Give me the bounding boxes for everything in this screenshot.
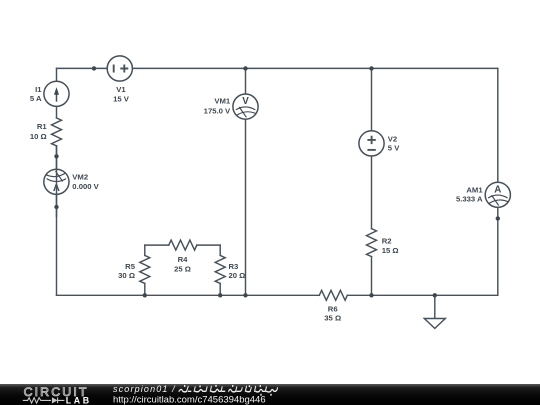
wire bottom rail left segment bbox=[57, 294, 320, 296]
svg-text:15 V: 15 V bbox=[113, 94, 130, 103]
wire R5 top lead bbox=[144, 245, 146, 255]
wire left column top bbox=[56, 68, 58, 81]
footer attribution arabic title squiggle bbox=[179, 386, 278, 392]
svg-text:V2: V2 bbox=[388, 135, 397, 144]
svg-text:V: V bbox=[242, 96, 249, 107]
resistor R1 bbox=[52, 118, 62, 146]
wire R4 to R3 top rail right bbox=[197, 244, 220, 246]
svg-text:20 Ω: 20 Ω bbox=[229, 271, 246, 280]
voltage source V2 bbox=[359, 131, 384, 156]
ammeter AM1 bbox=[485, 182, 510, 207]
resistor R3 bbox=[215, 255, 225, 283]
node top rail / V2 branch bbox=[369, 66, 373, 70]
wire VM1 branch lower bbox=[245, 119, 247, 295]
node top rail / VM1 branch bbox=[243, 66, 247, 70]
svg-text:VM1: VM1 bbox=[214, 97, 231, 106]
node R5 bottom bbox=[143, 293, 147, 297]
voltmeter VM2 bbox=[44, 146, 69, 217]
voltage source V1 bbox=[107, 56, 132, 81]
footer bar bbox=[0, 384, 540, 405]
wire top rail right segment bbox=[132, 67, 497, 69]
svg-text:http://circuitlab.com/c7456394: http://circuitlab.com/c7456394bg446 bbox=[113, 394, 266, 405]
svg-text:I1: I1 bbox=[35, 85, 42, 94]
svg-text:5 V: 5 V bbox=[388, 143, 400, 152]
svg-text:35 Ω: 35 Ω bbox=[324, 314, 341, 323]
node top rail / I1-V1 joint bbox=[92, 66, 96, 70]
current source I1 bbox=[44, 81, 69, 106]
svg-text:0.000 V: 0.000 V bbox=[72, 182, 99, 191]
svg-text:R5: R5 bbox=[125, 262, 136, 271]
resistor R6 bbox=[319, 290, 347, 300]
svg-text:R6: R6 bbox=[328, 304, 338, 313]
node junction dots bbox=[54, 66, 500, 297]
wire ground stub bbox=[434, 295, 436, 318]
resistor R5 bbox=[140, 255, 150, 283]
svg-text:30 Ω: 30 Ω bbox=[118, 271, 135, 280]
wire top rail left segment bbox=[57, 67, 108, 69]
svg-text:scorpion01 /: scorpion01 / bbox=[113, 384, 176, 394]
node ground joint bbox=[433, 293, 437, 297]
svg-text:VM2: VM2 bbox=[72, 172, 88, 181]
svg-text:V1: V1 bbox=[116, 85, 126, 94]
wire R3 bottom lead bbox=[219, 283, 221, 295]
ground bbox=[424, 319, 445, 329]
svg-text:5.333 A: 5.333 A bbox=[456, 195, 483, 204]
svg-text:25 Ω: 25 Ω bbox=[174, 265, 191, 274]
wire V2 branch upper bbox=[371, 68, 373, 130]
node VM1 branch bottom bbox=[243, 293, 247, 297]
resistor R2 bbox=[367, 229, 377, 257]
svg-text:175.0 V: 175.0 V bbox=[204, 106, 231, 115]
resistor R4 bbox=[169, 240, 197, 250]
svg-text:R3: R3 bbox=[229, 262, 239, 271]
svg-text:AM1: AM1 bbox=[466, 185, 483, 194]
svg-text:10 Ω: 10 Ω bbox=[30, 132, 47, 141]
wire bottom rail right segment bbox=[347, 294, 498, 296]
node AM1 lower joint bbox=[496, 216, 500, 220]
logo resistor-diode motif bbox=[23, 398, 65, 404]
node R2 bottom bbox=[369, 293, 373, 297]
node VM2 lower bbox=[54, 205, 58, 209]
wire R1 down through VM2 to bottom rail bbox=[56, 146, 58, 295]
svg-text:A: A bbox=[494, 184, 501, 195]
wire VM1 branch upper bbox=[245, 68, 247, 94]
wire right column upper bbox=[497, 68, 499, 182]
svg-text:R4: R4 bbox=[178, 255, 189, 264]
svg-text:R1: R1 bbox=[37, 122, 48, 131]
svg-text:LAB: LAB bbox=[66, 395, 92, 405]
svg-text:5 A: 5 A bbox=[30, 94, 42, 103]
node R3 bottom bbox=[218, 293, 222, 297]
wire R3 top lead bbox=[219, 245, 221, 255]
wire R2 to bottom rail bbox=[371, 257, 373, 296]
wire I1 to R1 bbox=[56, 106, 58, 118]
node R1 / VM2 bbox=[54, 154, 58, 158]
voltmeter VM1 bbox=[233, 94, 258, 119]
wire V2 to R2 bbox=[371, 156, 373, 229]
wire R5 bottom lead bbox=[144, 283, 146, 295]
svg-text:R2: R2 bbox=[382, 236, 392, 245]
wire R5 R4 top rail left bbox=[145, 244, 169, 246]
logo diode triangle bbox=[52, 397, 58, 403]
wire right column lower bbox=[497, 207, 499, 295]
svg-text:15 Ω: 15 Ω bbox=[382, 246, 399, 255]
